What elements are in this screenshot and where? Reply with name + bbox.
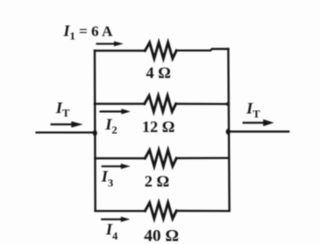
resistor R2 12 ohm xyxy=(145,96,176,112)
junction right branch 2 node xyxy=(226,102,230,106)
wire IT lead right xyxy=(228,131,289,133)
svg-text:IT: IT xyxy=(55,100,70,120)
svg-text:IT: IT xyxy=(246,101,261,121)
svg-text:I4: I4 xyxy=(105,221,118,242)
resistor R3 2 ohm xyxy=(145,150,176,166)
junction left IT node xyxy=(93,130,97,136)
resistor R1 4 ohm xyxy=(145,43,176,59)
arrow current IT right xyxy=(243,119,275,126)
svg-text:2 Ω: 2 Ω xyxy=(145,174,170,191)
wire IT lead left xyxy=(37,131,95,133)
wire branch 1 right xyxy=(176,49,228,51)
arrow current I1 xyxy=(96,41,124,46)
svg-text:40 Ω: 40 Ω xyxy=(144,226,179,244)
junction right IT node xyxy=(226,129,230,135)
svg-text:I2: I2 xyxy=(105,117,118,137)
wire branch 3 right xyxy=(176,157,229,159)
arrow current I3 xyxy=(101,164,130,169)
wire branch 2 left xyxy=(95,103,145,105)
wire left bus xyxy=(94,51,97,212)
arrow current IT left xyxy=(51,121,84,127)
arrow current I2 xyxy=(100,109,131,114)
svg-text:4 Ω: 4 Ω xyxy=(146,65,171,82)
resistor R4 40 ohm xyxy=(145,203,176,219)
wire right bus xyxy=(228,49,229,211)
svg-text:I3: I3 xyxy=(101,169,114,190)
arrow current I4 xyxy=(101,217,130,222)
wire branch 1 left xyxy=(95,50,145,52)
svg-text:12 Ω: 12 Ω xyxy=(142,119,175,136)
svg-text:I1 = 6 A: I1 = 6 A xyxy=(63,23,113,43)
wire branch 3 left xyxy=(95,157,145,159)
wire branch 4 right xyxy=(176,210,229,212)
wire branch 4 left xyxy=(95,210,145,212)
wire branch 2 right xyxy=(176,103,229,105)
